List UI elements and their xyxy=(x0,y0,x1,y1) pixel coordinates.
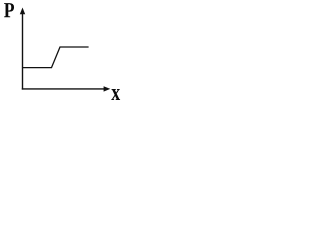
x-axis arrowhead xyxy=(104,86,111,91)
x-axis xyxy=(22,88,105,90)
curve: low flat, ramp, high flat xyxy=(23,47,89,68)
y-axis arrowhead xyxy=(20,8,25,15)
label P xyxy=(4,3,14,17)
y-axis P xyxy=(22,13,24,90)
label x xyxy=(111,89,120,100)
